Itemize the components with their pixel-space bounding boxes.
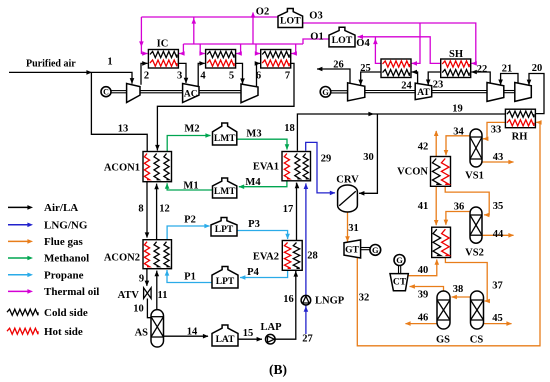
legend zigzag Hot side	[7, 328, 38, 334]
svg-text:ACON1: ACON1	[104, 163, 140, 174]
svg-text:(B): (B)	[269, 362, 287, 377]
svg-text:LMT: LMT	[214, 134, 236, 144]
svg-text:26: 26	[333, 60, 344, 71]
evaporator EVA2	[282, 241, 302, 271]
shaft AT to turbine T2	[432, 90, 487, 92]
vapor condenser VCON	[431, 157, 451, 187]
intercooler IC2	[206, 50, 236, 69]
pump LNGP	[301, 295, 311, 305]
svg-text:13: 13	[118, 124, 129, 135]
wire flue gas stream 35 VCON to separator VS2	[445, 186, 489, 215]
generator G of expansion train	[320, 87, 331, 98]
wire flue gas stream 39 separator GS to cold turbine CT	[410, 287, 444, 293]
svg-text:Hot side: Hot side	[44, 326, 83, 338]
reheater RH	[505, 109, 535, 128]
svg-text:LPT: LPT	[215, 225, 234, 235]
svg-text:Air/LA: Air/LA	[44, 202, 78, 214]
svg-text:10: 10	[133, 304, 144, 315]
shaft generator turbine to AT	[365, 90, 415, 92]
svg-text:15: 15	[243, 328, 254, 339]
valve ATV	[144, 288, 152, 299]
svg-text:3: 3	[177, 71, 182, 82]
compressor C1	[127, 84, 140, 103]
svg-text:P1: P1	[184, 272, 196, 283]
svg-text:Cold side: Cold side	[44, 307, 88, 319]
svg-text:20: 20	[532, 63, 543, 74]
svg-text:32: 32	[359, 293, 370, 304]
wire flue gas stream 45 CS liquid out	[484, 323, 512, 325]
svg-text:38: 38	[453, 284, 464, 295]
wire stream 14 air separator AS to tank LAT	[164, 335, 209, 337]
wire stream 13 recycle from ACON1 to purified air junction	[91, 72, 147, 151]
svg-text:CS: CS	[470, 335, 484, 346]
legend arrow Air/LA	[8, 206, 29, 208]
svg-text:2: 2	[144, 71, 149, 82]
wire flue gas stream 43 VS1 liquid out	[482, 161, 514, 163]
wire stream 18-19 EVA1 top to reheater RH	[297, 114, 505, 151]
wire thermal oil header A to tank LOT1 with O2 branch	[141, 16, 278, 18]
svg-text:LNGP: LNGP	[315, 296, 345, 307]
svg-text:43: 43	[493, 152, 504, 163]
wire stream 8 ACON1 to ACON2	[146, 182, 148, 238]
svg-text:P3: P3	[248, 219, 260, 230]
wire methanol M4 EVA1 to tank LMT2	[239, 181, 287, 187]
turbine T3	[515, 83, 532, 102]
wire stream 25 HX4 to generator turbine GTB	[361, 72, 381, 85]
svg-text:AT: AT	[417, 88, 430, 98]
wire stream 6 C3 to intercooler IC3	[257, 63, 261, 86]
wire stream 9 ACON2 to valve ATV	[146, 269, 148, 286]
wire flue gas stream 36 VS2 to condenser LCON	[446, 212, 472, 225]
svg-text:41: 41	[418, 201, 429, 212]
svg-text:46: 46	[418, 313, 429, 324]
wire flue gas stream 41 VCON to condenser LCON	[435, 186, 437, 225]
wire flue gas stream 32 GT around to reheater RH	[357, 122, 540, 345]
svg-text:ATV: ATV	[118, 290, 140, 301]
wire thermal oil return from IC1	[178, 44, 183, 54]
generator G of gas turbine	[370, 245, 381, 256]
liquid air tank LAT	[212, 325, 238, 346]
svg-text:Thermal oil: Thermal oil	[44, 286, 99, 298]
shaft GT to generator G	[361, 247, 370, 249]
svg-text:42: 42	[418, 142, 429, 153]
wire stream 20 RH to turbine T3	[529, 74, 544, 114]
svg-text:O4: O4	[356, 38, 370, 49]
svg-text:14: 14	[187, 327, 198, 338]
svg-text:LMT: LMT	[214, 187, 236, 197]
svg-text:18: 18	[284, 123, 295, 134]
shaft AC to C3	[199, 90, 241, 92]
air separator AS	[151, 310, 164, 347]
wire flue gas stream 40 cold turbine CT to LCON	[407, 260, 437, 276]
svg-text:P2: P2	[184, 215, 196, 226]
svg-text:GS: GS	[436, 335, 450, 346]
svg-text:O1: O1	[310, 32, 323, 43]
svg-text:21: 21	[502, 64, 513, 75]
gas turbine GT	[344, 240, 361, 258]
shaft G to cold turbine CT	[398, 266, 400, 274]
svg-text:40: 40	[418, 265, 429, 276]
wire stream 11 AS vapor return to ACON2	[156, 271, 158, 311]
legend arrow Flue gas	[8, 240, 29, 242]
svg-text:31: 31	[348, 223, 359, 234]
separator CS	[471, 291, 484, 329]
svg-text:O2: O2	[256, 7, 269, 18]
wire stream 17 EVA2 to EVA1	[296, 183, 298, 241]
svg-text:LOT: LOT	[280, 16, 301, 27]
wire thermal oil feed to IC3	[256, 44, 260, 54]
separator VS2	[470, 207, 482, 243]
wire stream 10 ATV to air separator AS	[147, 299, 151, 318]
wire flue gas stream 38 CS to GS	[452, 296, 471, 298]
svg-text:G: G	[396, 255, 403, 265]
wire thermal oil riser from header B to header A	[193, 18, 195, 45]
air cooler ACON1	[143, 152, 172, 182]
wire propane P2 ACON2 to tank LPT1	[167, 226, 209, 240]
svg-text:Purified air: Purified air	[26, 59, 76, 70]
wire flue gas stream 37 LCON to separator CS	[445, 258, 487, 302]
heat exchanger HX4	[381, 59, 411, 78]
svg-text:8: 8	[138, 204, 143, 215]
svg-text:28: 28	[307, 251, 318, 262]
cold recuperator CRV	[338, 185, 358, 212]
wire stream 3 IC1 to compressor AC	[178, 63, 186, 83]
svg-text:AS: AS	[135, 328, 149, 339]
svg-text:27: 27	[302, 334, 313, 345]
svg-text:LPT: LPT	[216, 277, 235, 287]
svg-text:30: 30	[363, 152, 374, 163]
wire flue gas stream 33 RH to separator VS1	[483, 122, 505, 138]
wire thermal oil header B distribution line O1	[183, 43, 303, 45]
shaft C1 to AC	[140, 90, 183, 92]
wire thermal oil return from IC3	[291, 44, 296, 54]
svg-text:LNG/NG: LNG/NG	[44, 219, 88, 231]
svg-text:EVA1: EVA1	[253, 162, 279, 173]
svg-text:7: 7	[285, 71, 290, 82]
wire purified air inlet to compressor C1	[9, 72, 132, 83]
wire methanol M1 LMT2 to ACON1	[167, 183, 212, 190]
wire stream 26 exhaust out of generator turbine	[317, 69, 350, 83]
svg-text:C: C	[103, 88, 109, 97]
wire stream 4 AC to intercooler IC2	[198, 63, 205, 86]
svg-text:35: 35	[493, 201, 504, 212]
cold turbine CT	[390, 274, 408, 291]
wire stream 15 LAT to pump LAP	[238, 338, 262, 340]
intercooler IC3	[261, 50, 291, 69]
legend zigzag Cold side	[7, 309, 38, 315]
wire stream 5 IC2 to compressor C3	[236, 63, 243, 83]
separator GS	[437, 291, 450, 329]
wire thermal oil feed to IC2	[200, 44, 205, 54]
svg-text:M1: M1	[183, 181, 198, 192]
motor C of compressor train	[101, 87, 111, 97]
svg-text:Propane: Propane	[44, 269, 84, 281]
svg-text:4: 4	[200, 71, 206, 82]
svg-text:GT: GT	[345, 246, 359, 256]
pump LAP	[266, 334, 276, 344]
svg-text:Methanol: Methanol	[44, 253, 89, 265]
svg-text:22: 22	[477, 64, 488, 75]
svg-text:19: 19	[452, 104, 463, 115]
wire flue gas stream 42 vent from VCON	[435, 131, 437, 157]
methanol tank LMT1	[213, 123, 237, 145]
wire flue gas stream 44 VS2 liquid out	[482, 234, 513, 236]
wire propane P4 EVA2 to tank LPT2	[240, 270, 288, 277]
svg-text:SH: SH	[449, 49, 463, 60]
svg-text:9: 9	[139, 273, 144, 284]
legend arrow LNG/NG	[8, 224, 29, 226]
evaporator EVA1	[282, 152, 311, 181]
legend arrow Propane	[8, 274, 29, 276]
svg-text:1: 1	[107, 57, 112, 68]
svg-text:G: G	[372, 245, 379, 255]
svg-text:12: 12	[159, 204, 170, 215]
svg-text:45: 45	[492, 313, 503, 324]
svg-text:LAP: LAP	[261, 322, 283, 333]
svg-text:11: 11	[158, 290, 168, 301]
shaft motor C to compressor C1	[111, 90, 127, 92]
superheater SH	[441, 59, 471, 78]
wire stream 22 turbine T2 to superheater SH	[471, 72, 490, 84]
wire flue gas stream 46 GS liquid out	[406, 323, 438, 325]
wire propane P1 LPT2 to ACON2	[167, 270, 212, 283]
wire thermal oil O4 return from SH and HX4 to LOT2	[358, 37, 441, 64]
svg-text:CRV: CRV	[336, 175, 359, 186]
air turbine AT	[415, 83, 432, 100]
compressor AC	[183, 84, 199, 103]
wire thermal oil return from IC2	[236, 44, 241, 54]
svg-text:RH: RH	[512, 132, 528, 143]
generator G of cold turbine	[394, 255, 405, 266]
svg-text:23: 23	[433, 80, 444, 91]
svg-text:M4: M4	[245, 177, 261, 188]
shaft G to generator turbine	[331, 90, 348, 92]
separator VS1	[470, 129, 482, 167]
svg-text:33: 33	[491, 125, 502, 136]
svg-text:6: 6	[256, 71, 261, 82]
thermal oil tank LOT1	[278, 9, 303, 28]
svg-text:5: 5	[229, 71, 234, 82]
shaft T2 to T3	[504, 90, 515, 92]
wire propane P3 LPT1 to EVA2	[237, 231, 288, 240]
wire stream 2 compressor C1 to intercooler IC1	[141, 63, 148, 84]
legend arrow Methanol	[8, 257, 29, 259]
wire stream 24 AT exhaust to heat exchanger HX4	[412, 72, 418, 84]
wire stream 16 LAP pump up to EVA2	[275, 271, 296, 339]
svg-text:29: 29	[321, 154, 332, 165]
svg-text:VS1: VS1	[465, 171, 484, 182]
generator turbine	[348, 83, 365, 101]
propane tank LPT1	[211, 218, 237, 237]
svg-text:LOT: LOT	[332, 35, 353, 46]
svg-text:IC: IC	[157, 39, 169, 50]
wire stream 12 ACON2 up to ACON1	[156, 184, 158, 240]
legend arrow Thermal oil	[8, 290, 29, 292]
svg-text:AC: AC	[184, 89, 198, 99]
compressor C3	[241, 84, 258, 103]
propane tank LPT2	[212, 267, 238, 289]
svg-text:CT: CT	[393, 278, 407, 288]
svg-text:Flue gas: Flue gas	[44, 236, 84, 248]
wire stream 21 turbine T3 to turbine T2	[501, 74, 518, 86]
wire stream 23 SH to air turbine AT	[428, 72, 441, 85]
wire flue gas stream 31 CRV to gas turbine GT	[347, 212, 349, 242]
svg-text:VS2: VS2	[465, 248, 484, 259]
svg-text:44: 44	[493, 229, 504, 240]
svg-text:39: 39	[418, 290, 429, 301]
svg-text:24: 24	[401, 81, 412, 92]
wire stream 7 IC3 down and across to ACON1	[157, 63, 294, 150]
intercooler IC1	[148, 50, 178, 69]
svg-text:G: G	[322, 87, 329, 97]
wire methanol M3 LMT1 to EVA1	[237, 139, 287, 149]
svg-text:16: 16	[283, 294, 294, 305]
svg-text:36: 36	[454, 202, 465, 213]
svg-text:25: 25	[360, 63, 371, 74]
wire NG stream 29 EVA1 to CRV	[306, 142, 335, 193]
svg-text:ACON2: ACON2	[104, 253, 140, 264]
thermal oil tank LOT2	[329, 27, 355, 47]
methanol tank LMT2	[213, 178, 237, 198]
wire LNG stream 27-28 from inlet through pump LNGP to EVA1	[305, 183, 307, 334]
wire thermal oil feed to IC1	[141, 17, 147, 54]
svg-text:VCON: VCON	[397, 167, 428, 178]
condenser LCON	[432, 227, 451, 257]
svg-text:M3: M3	[246, 129, 261, 140]
svg-text:O3: O3	[309, 11, 322, 22]
svg-text:P4: P4	[247, 267, 259, 278]
svg-text:17: 17	[283, 204, 294, 215]
svg-text:EVA2: EVA2	[253, 252, 279, 263]
svg-text:M2: M2	[184, 124, 199, 135]
wire flue gas stream 34 VS1 to condenser VCON	[446, 136, 472, 155]
svg-text:LAT: LAT	[216, 335, 235, 345]
wire stream 30 branch down to cold recuperator CRV	[359, 114, 377, 193]
air cooler ACON2	[143, 240, 172, 269]
wire methanol M2 ACON1 to tank LMT1	[167, 136, 210, 152]
turbine T2	[487, 83, 504, 102]
svg-text:37: 37	[492, 281, 503, 292]
svg-text:34: 34	[453, 127, 464, 138]
wire thermal oil O3 LOT1 to SH and HX4	[303, 23, 476, 63]
